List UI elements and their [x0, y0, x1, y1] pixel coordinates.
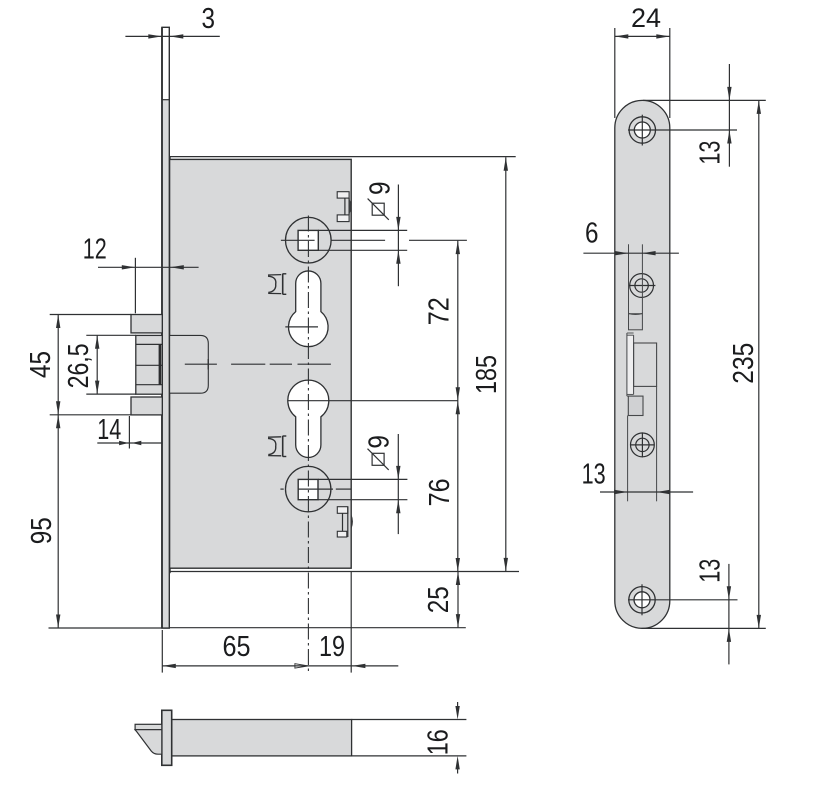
svg-text:26,5: 26,5 — [63, 343, 95, 388]
svg-text:235: 235 — [728, 343, 760, 384]
svg-text:24: 24 — [631, 3, 661, 33]
svg-text:3: 3 — [202, 3, 216, 35]
svg-text:9: 9 — [364, 181, 396, 195]
svg-text:13: 13 — [694, 141, 726, 165]
svg-text:185: 185 — [471, 355, 503, 394]
svg-text:72: 72 — [423, 297, 455, 325]
svg-text:95: 95 — [26, 517, 58, 544]
svg-text:19: 19 — [319, 631, 345, 663]
svg-text:13: 13 — [695, 559, 727, 583]
svg-text:65: 65 — [223, 631, 251, 663]
svg-text:45: 45 — [25, 351, 57, 378]
svg-text:76: 76 — [424, 478, 456, 506]
svg-text:25: 25 — [423, 586, 455, 613]
svg-text:14: 14 — [97, 414, 121, 446]
svg-text:13: 13 — [582, 458, 606, 490]
svg-text:16: 16 — [423, 729, 455, 755]
svg-text:6: 6 — [585, 218, 599, 250]
svg-text:9: 9 — [363, 435, 395, 449]
svg-text:12: 12 — [83, 233, 107, 265]
